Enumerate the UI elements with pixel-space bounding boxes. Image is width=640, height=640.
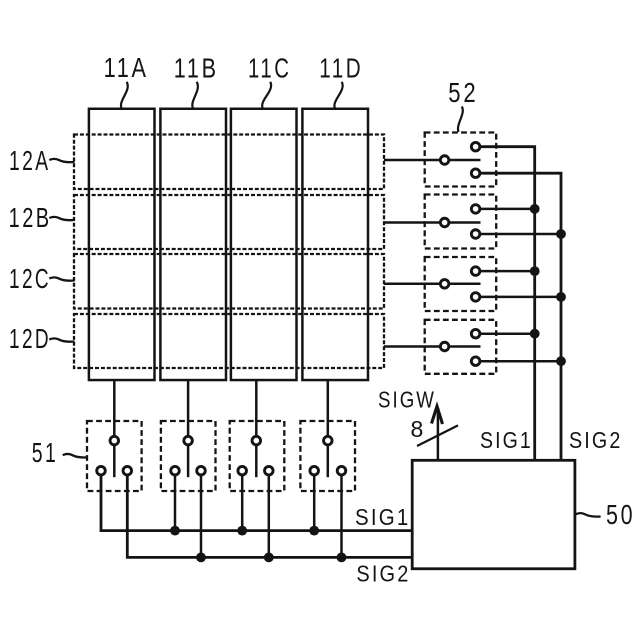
wire: column 11C to switch 51c pole [255,380,258,435]
row block 12B [74,195,384,249]
switch 52a [425,133,497,187]
junction dot 52d-SIG1 [530,329,540,339]
wire: column 11A to switch 51a pole [113,380,116,435]
leader line 11A [121,82,128,108]
leader line 52 [458,107,463,133]
junction dot 51c-SIG1 [237,526,247,536]
junction dot 52d-SIG2 [556,356,566,366]
svg-text:SIG1: SIG1 [355,504,411,530]
junction dot 52b-SIG1 [530,204,540,214]
wire: switch 51d right throw drop [340,476,343,557]
SIGW arrowhead [432,406,443,424]
row block 12D [74,314,384,368]
svg-text:11A: 11A [104,52,149,83]
switch 52c [425,257,497,311]
switch 51a [87,421,142,491]
wire: SIG2 right bus from switch 52a bottom throw to block 50 [481,173,561,460]
wire: switch 51b left throw drop [174,476,177,531]
junction dot 52c-SIG1 [530,266,540,276]
wire: switch 51b right throw drop [200,476,203,557]
svg-text:SIG2: SIG2 [569,427,623,453]
block 50 driver [412,460,575,568]
leader tilde 12A [49,159,74,162]
wire: row 12B to switch 52b pole [384,221,439,224]
svg-text:SIG1: SIG1 [480,427,533,453]
svg-text:52: 52 [448,77,478,108]
wire: switch 52b bottom throw to SIG2 bus [481,233,561,236]
wire: row 12A to switch 52a pole [384,159,439,162]
leader tilde 12C [49,277,74,280]
switch 52d [425,320,497,374]
cell column 11C [231,109,297,380]
junction dot 51c-SIG2 [264,553,274,563]
junction dot 51b-SIG2 [196,553,206,563]
wire: row 12C to switch 52c pole [384,283,439,286]
switch 51c [230,421,285,491]
cell column 11A [89,109,155,380]
wire: switch 51c left throw drop [241,476,244,531]
svg-text:11C: 11C [248,53,292,84]
cell column 11D [302,109,368,380]
leader tilde 12D [49,338,74,341]
svg-text:12D: 12D [9,323,51,354]
svg-text:8: 8 [411,416,426,442]
wire: SIG2 bottom bus from switch 51a right throw to block 50 [127,476,412,557]
leader tilde 51 [63,454,87,458]
junction dot 51d-SIG2 [337,553,347,563]
leader line 11B [192,82,198,108]
leader line 11D [334,82,342,108]
wire: switch 52b top throw to SIG1 bus [481,208,535,211]
junction dot 51d-SIG1 [309,526,319,536]
svg-text:11D: 11D [319,53,363,84]
junction dot 52b-SIG2 [556,229,566,239]
leader tilde 12B [49,217,74,220]
svg-text:50: 50 [606,499,635,530]
wire: SIG1 right bus from switch 52a top throw to block 50 [481,147,535,461]
svg-text:12B: 12B [9,202,52,233]
row block 12A [74,135,384,190]
SIGW bus-width slash [417,425,458,446]
SIGW arrow shaft [437,408,440,460]
leader line 11C [262,82,271,108]
wire: column 11D to switch 51d pole [327,380,330,435]
wire: switch 52c top throw to SIG1 bus [481,270,535,273]
svg-text:SIGW: SIGW [378,387,436,413]
wire: switch 51d left throw drop [313,476,316,531]
wire: SIG1 bottom bus from switch 51a left throw to block 50 [101,476,412,531]
wire: switch 52d top throw to SIG1 bus [481,332,535,335]
switch 52b [425,195,497,249]
wire: switch 51c right throw drop [268,476,271,557]
wire: row 12D to switch 52d pole [384,345,439,348]
svg-text:11B: 11B [174,53,219,84]
row block 12C [74,254,384,309]
junction dot 52c-SIG2 [556,292,566,302]
svg-text:51: 51 [32,437,58,468]
leader tilde 50 [576,513,601,516]
cell column 11B [160,109,226,380]
svg-text:SIG2: SIG2 [356,561,410,587]
junction dot 51b-SIG1 [170,526,180,536]
wire: switch 52c bottom throw to SIG2 bus [481,296,561,299]
svg-text:12A: 12A [9,145,51,176]
svg-text:12C: 12C [9,263,51,294]
wire: switch 52d bottom throw to SIG2 bus [481,360,561,363]
wire: column 11B to switch 51b pole [187,380,190,435]
switch 51d [300,421,355,491]
switch 51b [161,421,216,491]
